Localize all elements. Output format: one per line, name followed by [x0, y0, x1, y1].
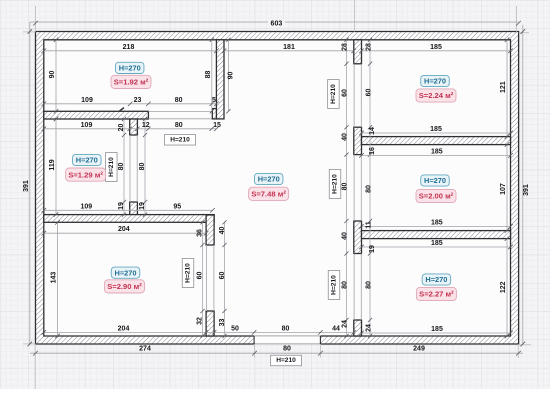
- svg-text:S=7.48 м²: S=7.48 м²: [251, 190, 286, 199]
- dimension room S=1.29 height 119: [49, 117, 58, 217]
- svg-text:19: 19: [369, 245, 376, 253]
- dimension top-left room width 218: [42, 44, 219, 53]
- svg-text:40: 40: [342, 133, 349, 141]
- chain dimension texts right of spine: [366, 43, 376, 332]
- wall below top-left room: [44, 111, 149, 119]
- wall between S=2.00 and S=2.27: [362, 231, 511, 239]
- svg-text:20: 20: [118, 124, 125, 132]
- label S=1.92 top-left room: [111, 75, 151, 88]
- svg-text:80: 80: [282, 325, 290, 332]
- dimension room S=2.90 height 143: [51, 220, 60, 338]
- svg-text:H=270: H=270: [425, 275, 447, 284]
- svg-text:185: 185: [431, 326, 443, 333]
- label H=210 door below top-left room: [165, 135, 196, 146]
- label H=210 door in bottom wall: [271, 355, 302, 366]
- svg-text:28: 28: [342, 43, 349, 51]
- svg-text:H=210: H=210: [108, 157, 115, 177]
- dimension top-left room height 90: [49, 38, 58, 114]
- svg-text:19: 19: [118, 202, 125, 210]
- svg-text:60: 60: [342, 89, 349, 97]
- dimension room S=1.29 bottom 109 and hall 95: [42, 203, 215, 212]
- svg-text:143: 143: [51, 272, 58, 284]
- svg-text:391: 391: [523, 184, 530, 196]
- svg-text:44: 44: [332, 325, 340, 332]
- svg-text:119: 119: [49, 159, 56, 170]
- svg-text:185: 185: [431, 148, 443, 155]
- svg-text:181: 181: [283, 44, 295, 51]
- svg-text:88: 88: [205, 71, 212, 79]
- dimension room S=2.24 width 185 top: [359, 44, 513, 53]
- dimension overall top 603: [30, 20, 521, 28]
- chain dimension texts left of spine: [342, 43, 349, 328]
- svg-text:S=1.92 м²: S=1.92 м²: [114, 78, 149, 87]
- svg-text:H=270: H=270: [424, 176, 446, 185]
- label H=270 top-left room: [115, 62, 144, 73]
- svg-text:80: 80: [366, 185, 373, 193]
- wall right of room S=2.90 lower segment: [206, 311, 214, 336]
- label S=2.90 room S=2.90: [105, 280, 145, 293]
- label H=270 room S=1.29: [73, 154, 102, 165]
- plan interior floor: [44, 40, 511, 336]
- door opening, wall below top-left room: [148, 111, 211, 113]
- dimension room S=2.24 bottom 185: [359, 126, 513, 135]
- wall right of room S=2.90 upper segment: [206, 215, 214, 245]
- label H=210 door in spine middle: [329, 170, 341, 199]
- label S=1.29 room S=1.29: [66, 168, 106, 181]
- svg-text:H=270: H=270: [76, 156, 98, 165]
- label H=210 door in spine lower: [328, 271, 340, 300]
- dimension room S=2.24 height 121: [500, 38, 509, 139]
- svg-text:204: 204: [118, 325, 130, 332]
- svg-text:23: 23: [134, 97, 142, 104]
- svg-text:80: 80: [175, 97, 183, 104]
- label H=270 room S=2.27: [422, 274, 451, 285]
- svg-text:S=1.29 м²: S=1.29 м²: [68, 170, 103, 179]
- label S=2.27 room S=2.27: [416, 287, 456, 300]
- svg-text:40: 40: [342, 232, 349, 240]
- wall spine bottom segment: [354, 320, 362, 336]
- svg-text:H=210: H=210: [332, 174, 339, 194]
- wall between S=2.24 and S=2.00: [362, 137, 511, 145]
- svg-text:122: 122: [500, 281, 507, 293]
- dimension texts beside entry wall: [205, 71, 235, 80]
- svg-text:28: 28: [366, 43, 373, 51]
- svg-text:80: 80: [118, 163, 125, 171]
- svg-text:36: 36: [196, 229, 203, 237]
- svg-text:24: 24: [366, 324, 373, 332]
- wall right of room S=1.29 upper segment: [130, 119, 138, 135]
- dimension overall bottom 274-80-249: [30, 346, 523, 356]
- svg-text:109: 109: [80, 203, 92, 210]
- svg-text:40: 40: [219, 227, 226, 235]
- svg-text:107: 107: [500, 183, 507, 195]
- dimension room S=2.00 top 185: [359, 148, 513, 157]
- svg-text:60: 60: [196, 272, 203, 280]
- dimension room S=2.27 top 185: [359, 240, 513, 249]
- door opening, S=1.29 right wall: [129, 135, 131, 202]
- svg-text:H=210: H=210: [331, 275, 338, 295]
- dimension room S=2.27 height 122: [500, 236, 509, 338]
- svg-text:185: 185: [431, 240, 443, 247]
- svg-text:16: 16: [369, 147, 376, 155]
- svg-text:80: 80: [139, 163, 146, 171]
- chain dimension lines flanking walls: [124, 40, 370, 336]
- svg-text:H=210: H=210: [170, 136, 190, 143]
- svg-text:32: 32: [196, 317, 203, 325]
- label H=210 door in S=1.29 right wall: [106, 153, 118, 182]
- label H=210 door in spine upper: [328, 80, 340, 109]
- dimension row 109-23-80-5: [42, 97, 219, 106]
- label S=2.00 room S=2.00: [416, 189, 456, 202]
- svg-text:11: 11: [366, 221, 373, 229]
- svg-text:90: 90: [228, 72, 235, 80]
- dimension room S=2.90 top 204: [42, 226, 209, 235]
- chain dimension texts around S=2.90 right wall: [196, 227, 226, 327]
- svg-text:S=2.27 м²: S=2.27 м²: [419, 290, 454, 299]
- label H=270 hall: [254, 173, 283, 184]
- svg-text:H=270: H=270: [115, 268, 137, 277]
- svg-text:90: 90: [49, 71, 56, 79]
- svg-text:109: 109: [81, 97, 93, 104]
- dimension right overall 391: [521, 25, 530, 346]
- wall small jamb step: [212, 109, 216, 119]
- svg-text:14: 14: [369, 127, 376, 135]
- svg-text:391: 391: [23, 180, 30, 192]
- small mark above wall below top-left room: [120, 108, 125, 111]
- label H=270 room S=2.90: [111, 267, 140, 278]
- label H=210 door in S=2.90 right wall: [182, 259, 194, 288]
- wall spine middle segment 1: [354, 127, 362, 154]
- svg-text:S=2.00 м²: S=2.00 м²: [419, 192, 454, 201]
- wall between S=1.29 and S=2.90: [44, 215, 214, 223]
- svg-text:H=210: H=210: [276, 357, 296, 364]
- svg-text:218: 218: [123, 44, 135, 51]
- door openings along spine wall: [353, 64, 355, 127]
- svg-text:H=210: H=210: [330, 84, 337, 104]
- label S=2.24 room S=2.24: [416, 89, 456, 102]
- svg-text:H=270: H=270: [424, 77, 446, 86]
- svg-text:80: 80: [366, 281, 373, 289]
- svg-text:S=2.24 м²: S=2.24 м²: [419, 91, 454, 100]
- label S=7.48 hall: [249, 187, 289, 200]
- svg-text:80: 80: [342, 281, 349, 289]
- svg-text:274: 274: [139, 346, 151, 353]
- tick marks on chain dimension lines: [122, 38, 372, 338]
- svg-text:121: 121: [500, 81, 507, 93]
- dimension row 109-12-80-15: [42, 122, 221, 131]
- dimension room S=2.90 bottom 204 / 50-80-44: [42, 325, 357, 334]
- bottom wall door opening: [254, 335, 320, 344]
- svg-text:19: 19: [139, 202, 146, 210]
- chain dimension texts around S=1.29 right wall: [118, 124, 146, 210]
- exterior wall ring: [36, 32, 519, 345]
- svg-text:95: 95: [173, 203, 181, 210]
- svg-text:H=210: H=210: [185, 263, 192, 283]
- svg-text:H=270: H=270: [119, 64, 141, 73]
- svg-text:12: 12: [142, 122, 150, 129]
- label H=270 room S=2.24: [421, 75, 450, 86]
- svg-text:185: 185: [430, 126, 442, 133]
- dimension room S=2.00 height 107: [500, 142, 509, 233]
- wall right of room S=1.29 lower segment: [130, 202, 138, 222]
- dimension room S=2.00 bottom 185: [359, 219, 513, 228]
- dimension left overall 391: [23, 22, 32, 346]
- svg-text:204: 204: [118, 226, 130, 233]
- svg-text:109: 109: [81, 122, 93, 129]
- svg-text:S=2.90 м²: S=2.90 м²: [107, 282, 142, 291]
- wall spine middle segment 2: [354, 221, 362, 254]
- dimension hall top width 181: [222, 44, 356, 53]
- svg-text:80: 80: [283, 346, 291, 353]
- dimension room S=2.27 bottom 185: [359, 326, 513, 335]
- svg-text:24: 24: [342, 320, 349, 328]
- wall spine stub from top wall: [354, 40, 362, 64]
- door opening, S=2.90 right wall: [205, 245, 207, 311]
- svg-text:185: 185: [430, 44, 442, 51]
- label H=270 room S=2.00: [421, 175, 450, 186]
- svg-text:50: 50: [231, 325, 239, 332]
- svg-text:H=270: H=270: [258, 175, 280, 184]
- svg-text:80: 80: [342, 183, 349, 191]
- svg-text:249: 249: [413, 346, 425, 353]
- svg-text:60: 60: [219, 272, 226, 280]
- svg-text:60: 60: [366, 89, 373, 97]
- wall vertical between entry room and hall: [216, 40, 224, 119]
- svg-text:80: 80: [175, 122, 183, 129]
- svg-text:33: 33: [219, 319, 226, 327]
- svg-text:185: 185: [431, 219, 443, 226]
- svg-text:603: 603: [271, 21, 283, 28]
